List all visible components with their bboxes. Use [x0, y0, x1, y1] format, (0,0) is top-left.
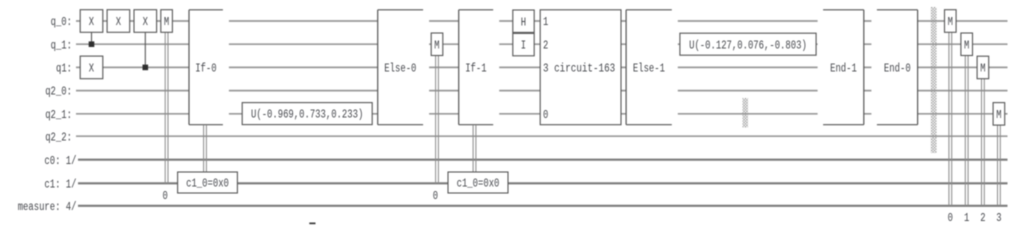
wire c1 — [78, 182, 1008, 184]
if block If-0 — [189, 9, 229, 125]
svg-text:q2_1:: q2_1: — [45, 109, 72, 122]
svg-text:q_0:: q_0: — [51, 16, 72, 29]
measure M on q1 (final) — [977, 56, 989, 78]
svg-text:c0: 1/: c0: 1/ — [44, 155, 76, 168]
wire q1 — [76, 66, 1008, 68]
barrier on q2_1 — [743, 98, 749, 128]
svg-text:1: 1 — [964, 212, 969, 225]
gate circuit-163 on q_0,q_1,q1,q2_1 — [540, 10, 621, 125]
measure line to measure[0] — [949, 32, 952, 206]
svg-text:0: 0 — [543, 109, 548, 122]
svg-text:0: 0 — [163, 190, 168, 203]
end block End-0 — [871, 9, 917, 125]
wire q2_2 — [76, 135, 1008, 137]
control square on q_1 — [89, 41, 95, 47]
end block End-1 — [818, 9, 864, 125]
svg-text:X: X — [116, 16, 121, 29]
gate U on q2_1 — [242, 103, 372, 125]
svg-text:0: 0 — [948, 212, 953, 225]
gate I on q_1 — [513, 33, 534, 55]
svg-text:U(-0.969,0.733,0.233): U(-0.969,0.733,0.233) — [251, 109, 363, 122]
svg-text:measure: 4/: measure: 4/ — [18, 201, 77, 214]
measure M on q_0 — [161, 10, 173, 33]
svg-text:q2_2:: q2_2: — [45, 131, 72, 144]
gate X on q1 — [80, 56, 103, 79]
svg-text:H: H — [521, 16, 526, 29]
wire q2_1 — [76, 113, 1008, 115]
svg-text:0: 0 — [433, 190, 438, 203]
measure line M q_1 -> c1[0] — [436, 56, 439, 184]
condition box c1_0=0x0 (If-0) — [178, 172, 238, 193]
gate H on q_0 — [513, 10, 534, 32]
gate X on q_0 (col 3) — [134, 10, 157, 33]
svg-text:1: 1 — [543, 16, 548, 29]
svg-text:M: M — [964, 39, 969, 52]
control line CX q_1 -> q_0 — [91, 32, 93, 44]
svg-text:q_1:: q_1: — [51, 39, 72, 52]
svg-text:If-1: If-1 — [465, 63, 486, 76]
gate X on q_0 (col 1) — [80, 10, 103, 33]
svg-text:X: X — [89, 16, 94, 29]
gate U on q_1 — [680, 33, 816, 55]
svg-text:q2_0:: q2_0: — [45, 86, 72, 99]
wire measure — [78, 205, 1008, 207]
measure line to measure[3] — [998, 125, 1001, 206]
svg-text:c1_0=0x0: c1_0=0x0 — [457, 178, 500, 191]
svg-text:X: X — [89, 63, 94, 76]
svg-text:2: 2 — [543, 39, 548, 52]
svg-text:3: 3 — [996, 212, 1001, 225]
svg-text:Else-0: Else-0 — [384, 63, 416, 76]
else block Else-1 — [626, 9, 678, 125]
svg-text:c1: 1/: c1: 1/ — [44, 178, 76, 191]
svg-text:M: M — [996, 109, 1001, 122]
condition line If-0 — [204, 125, 207, 172]
svg-text:Else-1: Else-1 — [633, 63, 665, 76]
svg-text:I: I — [521, 40, 526, 53]
svg-text:3 circuit-163: 3 circuit-163 — [543, 63, 615, 76]
control square on q1 — [143, 65, 149, 71]
condition line If-1 — [473, 125, 476, 172]
barrier all qubits — [931, 7, 937, 153]
measure M on q_1 (final) — [961, 33, 973, 56]
svg-text:q1:: q1: — [56, 63, 72, 76]
svg-text:c1_0=0x0: c1_0=0x0 — [186, 178, 229, 191]
svg-text:M: M — [980, 63, 985, 76]
wire q2_0 — [76, 90, 1008, 92]
svg-text:M: M — [164, 16, 169, 29]
gate X on q_0 (col 2) — [107, 10, 130, 33]
svg-text:2: 2 — [980, 212, 985, 225]
dash mark — [309, 223, 315, 225]
wire q_1 — [76, 43, 1008, 45]
else block Else-0 — [378, 9, 429, 125]
wire c0 — [78, 159, 1008, 161]
if block If-1 — [459, 9, 500, 125]
measure M on q_0 (final) — [945, 10, 957, 33]
measure line M q_0 -> c1[0] — [165, 32, 168, 183]
svg-text:End-0: End-0 — [884, 63, 911, 76]
measure line to measure[2] — [982, 79, 985, 206]
measure M on q2_1 (final) — [993, 103, 1005, 126]
svg-text:End-1: End-1 — [830, 63, 857, 76]
condition box c1_0=0x0 (If-1) — [448, 172, 508, 193]
svg-text:If-0: If-0 — [195, 63, 216, 76]
svg-text:U(-0.127,0.076,-0.803): U(-0.127,0.076,-0.803) — [689, 39, 807, 52]
svg-text:M: M — [948, 16, 953, 29]
measure M on q_1 — [431, 33, 443, 56]
svg-text:M: M — [434, 39, 439, 52]
wire q_0 — [76, 20, 1008, 22]
svg-text:X: X — [143, 16, 148, 29]
measure line to measure[1] — [965, 56, 968, 206]
control line CX q1 -> q_0 — [144, 32, 146, 67]
